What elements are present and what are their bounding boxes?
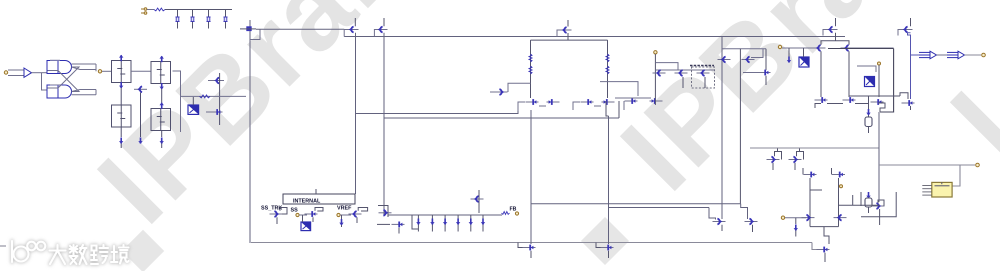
wire VREF to Q60: [340, 214, 351, 216]
Q15 gate bracket: [373, 30, 375, 37]
gate G2 label: [50, 84, 60, 86]
nand gate G1: [47, 61, 72, 74]
inverter cell X4 (lower): [151, 109, 171, 131]
wire vertical bus x250: [249, 20, 251, 243]
wire to bandgap box: [952, 165, 960, 186]
transistor Q20: [581, 99, 594, 105]
wire sense bracket: [857, 66, 876, 72]
Q14 gate bracket: [344, 30, 345, 37]
core right branch: [607, 40, 609, 98]
wire X2 out: [173, 71, 181, 132]
diode icon D4: [301, 222, 311, 231]
wire pair tail: [835, 37, 837, 41]
transistor Q30: [718, 57, 731, 63]
wire G1 out: [72, 63, 97, 65]
output pin OUT: [982, 53, 986, 57]
transistor Q52: [834, 215, 847, 221]
wire pin right: [785, 217, 806, 219]
transistor Q45: [872, 203, 885, 209]
wire buffer to gates: [32, 72, 48, 74]
transistor Q58: [270, 211, 283, 217]
transistor Q31: [742, 57, 755, 63]
pin FB out: [976, 163, 980, 167]
wire row link: [827, 103, 843, 105]
wire latch out join: [72, 67, 97, 70]
core left branch: [530, 40, 532, 98]
wire core verticals down: [530, 110, 532, 204]
leg L1: [412, 215, 418, 229]
wire G2 out: [72, 94, 97, 96]
transistor Q33: [825, 27, 838, 33]
wire vertical x879: [878, 112, 880, 202]
wire top bracket: [722, 48, 766, 50]
wire branch down to G2: [42, 73, 48, 90]
Q17 bracket: [508, 83, 531, 92]
transistor Q59: [305, 211, 318, 217]
resistor R3a: [529, 54, 532, 62]
Q39 jog: [878, 103, 885, 112]
pin IN2: [781, 216, 784, 219]
bracket to vertical: [378, 206, 388, 218]
cell X2 top arrow: [160, 56, 164, 62]
pin VBG: [654, 51, 657, 54]
transistor Q46: [713, 219, 726, 225]
wire cell X1 down: [120, 88, 122, 105]
leg L6: [482, 215, 484, 232]
transistor Q48: [817, 247, 830, 253]
Q18/Q19 emitter bracket: [518, 102, 525, 111]
transistor Q22: [625, 98, 638, 104]
leg L4: [457, 215, 459, 232]
transistor Q14: [346, 27, 359, 33]
transistor Q10 between cells: [134, 86, 147, 92]
wire gate row: [655, 69, 715, 71]
wire y207.5 bus: [609, 207, 710, 209]
wire to buffer: [911, 54, 920, 56]
wire Q22-Q23: [615, 97, 651, 99]
wire SS to Q59: [299, 214, 307, 216]
current source leg M2: [192, 10, 194, 29]
wire top rail: [165, 9, 232, 11]
transistor Q36 pair-right: [841, 45, 854, 51]
resistor R7: [502, 212, 510, 215]
cell X1 bottom arrow: [119, 82, 123, 88]
wire gate row upper: [655, 63, 678, 70]
transistor Q26 in dashed box: [697, 70, 710, 76]
nand gate G2: [47, 85, 72, 98]
current source I1: [795, 218, 797, 224]
wire U2-U3: [937, 54, 948, 56]
transistor Q13 top of bus: [246, 26, 251, 31]
transistor Q49 (left tail): [523, 245, 536, 251]
transistor Q50: [601, 245, 614, 251]
current source leg M3: [208, 10, 210, 29]
wire step to Q46 gate: [709, 208, 716, 220]
transistor Q43: [804, 172, 817, 178]
transistor Q23: [650, 98, 663, 104]
buffer U2: [919, 51, 937, 59]
transistor Q57 on x479: [478, 190, 480, 213]
Q20/Q21 bracket: [594, 105, 601, 107]
watermark IPBrain 3 (partial right): [926, 65, 1000, 181]
wire input pair: [8, 69, 24, 71]
transistor Q47: [745, 219, 758, 225]
resistor R6 vertical box: [866, 192, 870, 198]
resistor R2: [200, 95, 211, 98]
transistor Q35 pair-left: [813, 45, 826, 51]
watermark IPBrain 2: [596, 0, 978, 215]
cell X4 bottom stub: [161, 131, 163, 138]
resistor R4a: [606, 54, 609, 62]
transistor Q25: [675, 70, 688, 76]
transistor Q41: [767, 157, 780, 163]
wire net A horizontal: [356, 102, 519, 114]
wire step to Q47 gate: [741, 204, 748, 219]
transistor Q11: [211, 78, 224, 84]
Q31 source bracket: [751, 49, 763, 58]
wire Q11 drain vertical: [219, 73, 221, 125]
wire vertical x740: [739, 49, 741, 204]
resistor R5 vertical box: [868, 96, 870, 117]
watermark IPBrain 1: [73, 0, 455, 248]
transistor Q19: [547, 99, 560, 105]
label above dashed box: [690, 65, 714, 67]
block INTERNAL box: [283, 194, 355, 204]
inverter cell X2: [151, 62, 171, 84]
wire pair out right: [853, 47, 894, 49]
transistor Q44: [832, 172, 845, 178]
pair top bracket: [821, 41, 849, 45]
wire net B horizontal: [384, 117, 619, 119]
wire lower bracket: [377, 223, 390, 225]
wire Q13 to Q14 gate: [256, 28, 344, 30]
pair body verticals: [820, 51, 822, 97]
VREF stub2: [356, 217, 358, 223]
transistor Q12: [210, 109, 223, 115]
resistor R3b: [529, 66, 532, 74]
transistor Q16 on rail: [559, 27, 572, 33]
diode icon D3: [865, 77, 875, 87]
nmos row Q39: [871, 99, 884, 105]
buffer U1: [24, 68, 32, 77]
wire gray y148: [750, 147, 879, 149]
transistor Q55: [379, 210, 392, 216]
wire from P1 to R1: [147, 9, 154, 11]
current source leg M4: [225, 10, 227, 29]
wire U3 to pin: [965, 54, 982, 56]
wire pin to pair: [782, 47, 817, 49]
wire pin down: [654, 54, 656, 105]
cell X4 top arrow: [160, 102, 164, 108]
buffer U3: [947, 51, 965, 59]
wire step to vertical: [618, 101, 620, 118]
wire pair2 top right: [839, 204, 881, 206]
wire Q33 down to pair: [835, 33, 837, 41]
input pin EN2: [778, 45, 781, 48]
inverter cell X3 (lower): [112, 105, 132, 127]
Q13 bracket: [250, 29, 260, 39]
wire gate bus y96: [849, 95, 900, 97]
input port IN: [4, 71, 7, 74]
cell X3 bottom stub: [120, 127, 122, 137]
wire G2 feedback cross: [48, 71, 80, 92]
pin sense2: [840, 185, 843, 188]
transistor Q42: [789, 157, 802, 163]
pin SS: [296, 213, 299, 216]
transistor Q34: [900, 27, 913, 33]
transistor Q18: [526, 99, 539, 105]
port P1 (top-left supply pins): [144, 8, 147, 11]
pin FB2: [515, 212, 518, 215]
nmos row Q38: [843, 97, 856, 103]
leg L3: [444, 215, 446, 232]
core box top: [531, 39, 608, 41]
inverter cell X1: [112, 61, 132, 83]
leg L5: [470, 215, 472, 232]
Q22 bracket: [623, 101, 625, 110]
wire mid net: [181, 95, 247, 97]
current source leg M1: [177, 10, 179, 29]
wire D4 stub: [302, 215, 304, 222]
wire x766 vertical: [765, 49, 767, 70]
transistor Q17: [495, 89, 508, 95]
wire gnd bus y242: [251, 242, 812, 244]
wire cell X2 down: [161, 89, 163, 109]
transistor Q32: [758, 70, 771, 76]
nmos row Q40: [902, 100, 915, 106]
wire gnd bus left stub: [0, 245, 6, 247]
U4 left pins: [922, 185, 932, 187]
gate G1 label: [50, 59, 60, 61]
pin VREF: [337, 213, 340, 216]
diode icon D2: [799, 57, 809, 67]
pair2 tail down: [824, 227, 829, 244]
pin sense: [878, 62, 881, 65]
wire Q to cell A1: [102, 70, 112, 72]
wire Q14 drain vertical: [355, 33, 357, 194]
wire left net: [600, 82, 638, 96]
transistor Q60: [349, 211, 362, 217]
wire X1 to X2: [131, 70, 151, 72]
stub under EN2 wire: [788, 48, 790, 57]
wire VDD rail: [344, 36, 845, 38]
transistor Q15: [375, 27, 388, 33]
dashed box: [692, 67, 715, 88]
wire Q15 drain vertical long: [383, 33, 385, 215]
node Q pin: [95, 64, 97, 71]
watermark fragment diamond center: [581, 217, 629, 265]
resistor R4b: [606, 66, 609, 74]
watermark fragment diamond left: [122, 230, 164, 271]
transistor Q21: [602, 99, 615, 105]
resistor R1: [154, 8, 165, 11]
nmos row Q37: [815, 97, 828, 103]
transistor Q24: [653, 70, 666, 76]
leg L2: [431, 215, 433, 232]
VREF stub1: [341, 215, 343, 219]
cell X1 top source arrow: [119, 55, 123, 61]
dark box outline: [816, 48, 818, 50]
cluster box right: [860, 192, 862, 206]
cell X2 bottom arrow: [160, 83, 164, 89]
transistor Q56: [392, 222, 405, 228]
wire vertical x722: [721, 37, 723, 220]
bandgap block U4 (yellow): [932, 182, 952, 197]
wire bottom bracket: [815, 104, 821, 109]
pair2 box: [809, 204, 811, 227]
wire feedback y165: [879, 164, 975, 166]
wire Q34 drain jog: [908, 33, 911, 55]
wire G1 feedback cross: [48, 67, 80, 88]
wire icon stub: [803, 48, 805, 57]
wire y203.7 bus: [531, 203, 741, 205]
wire gnd bus step: [812, 243, 817, 250]
wire rail y215: [388, 214, 502, 216]
transistor Q51: [802, 215, 815, 221]
wire bracket y185: [810, 185, 822, 190]
diode icon D1: [188, 105, 199, 114]
